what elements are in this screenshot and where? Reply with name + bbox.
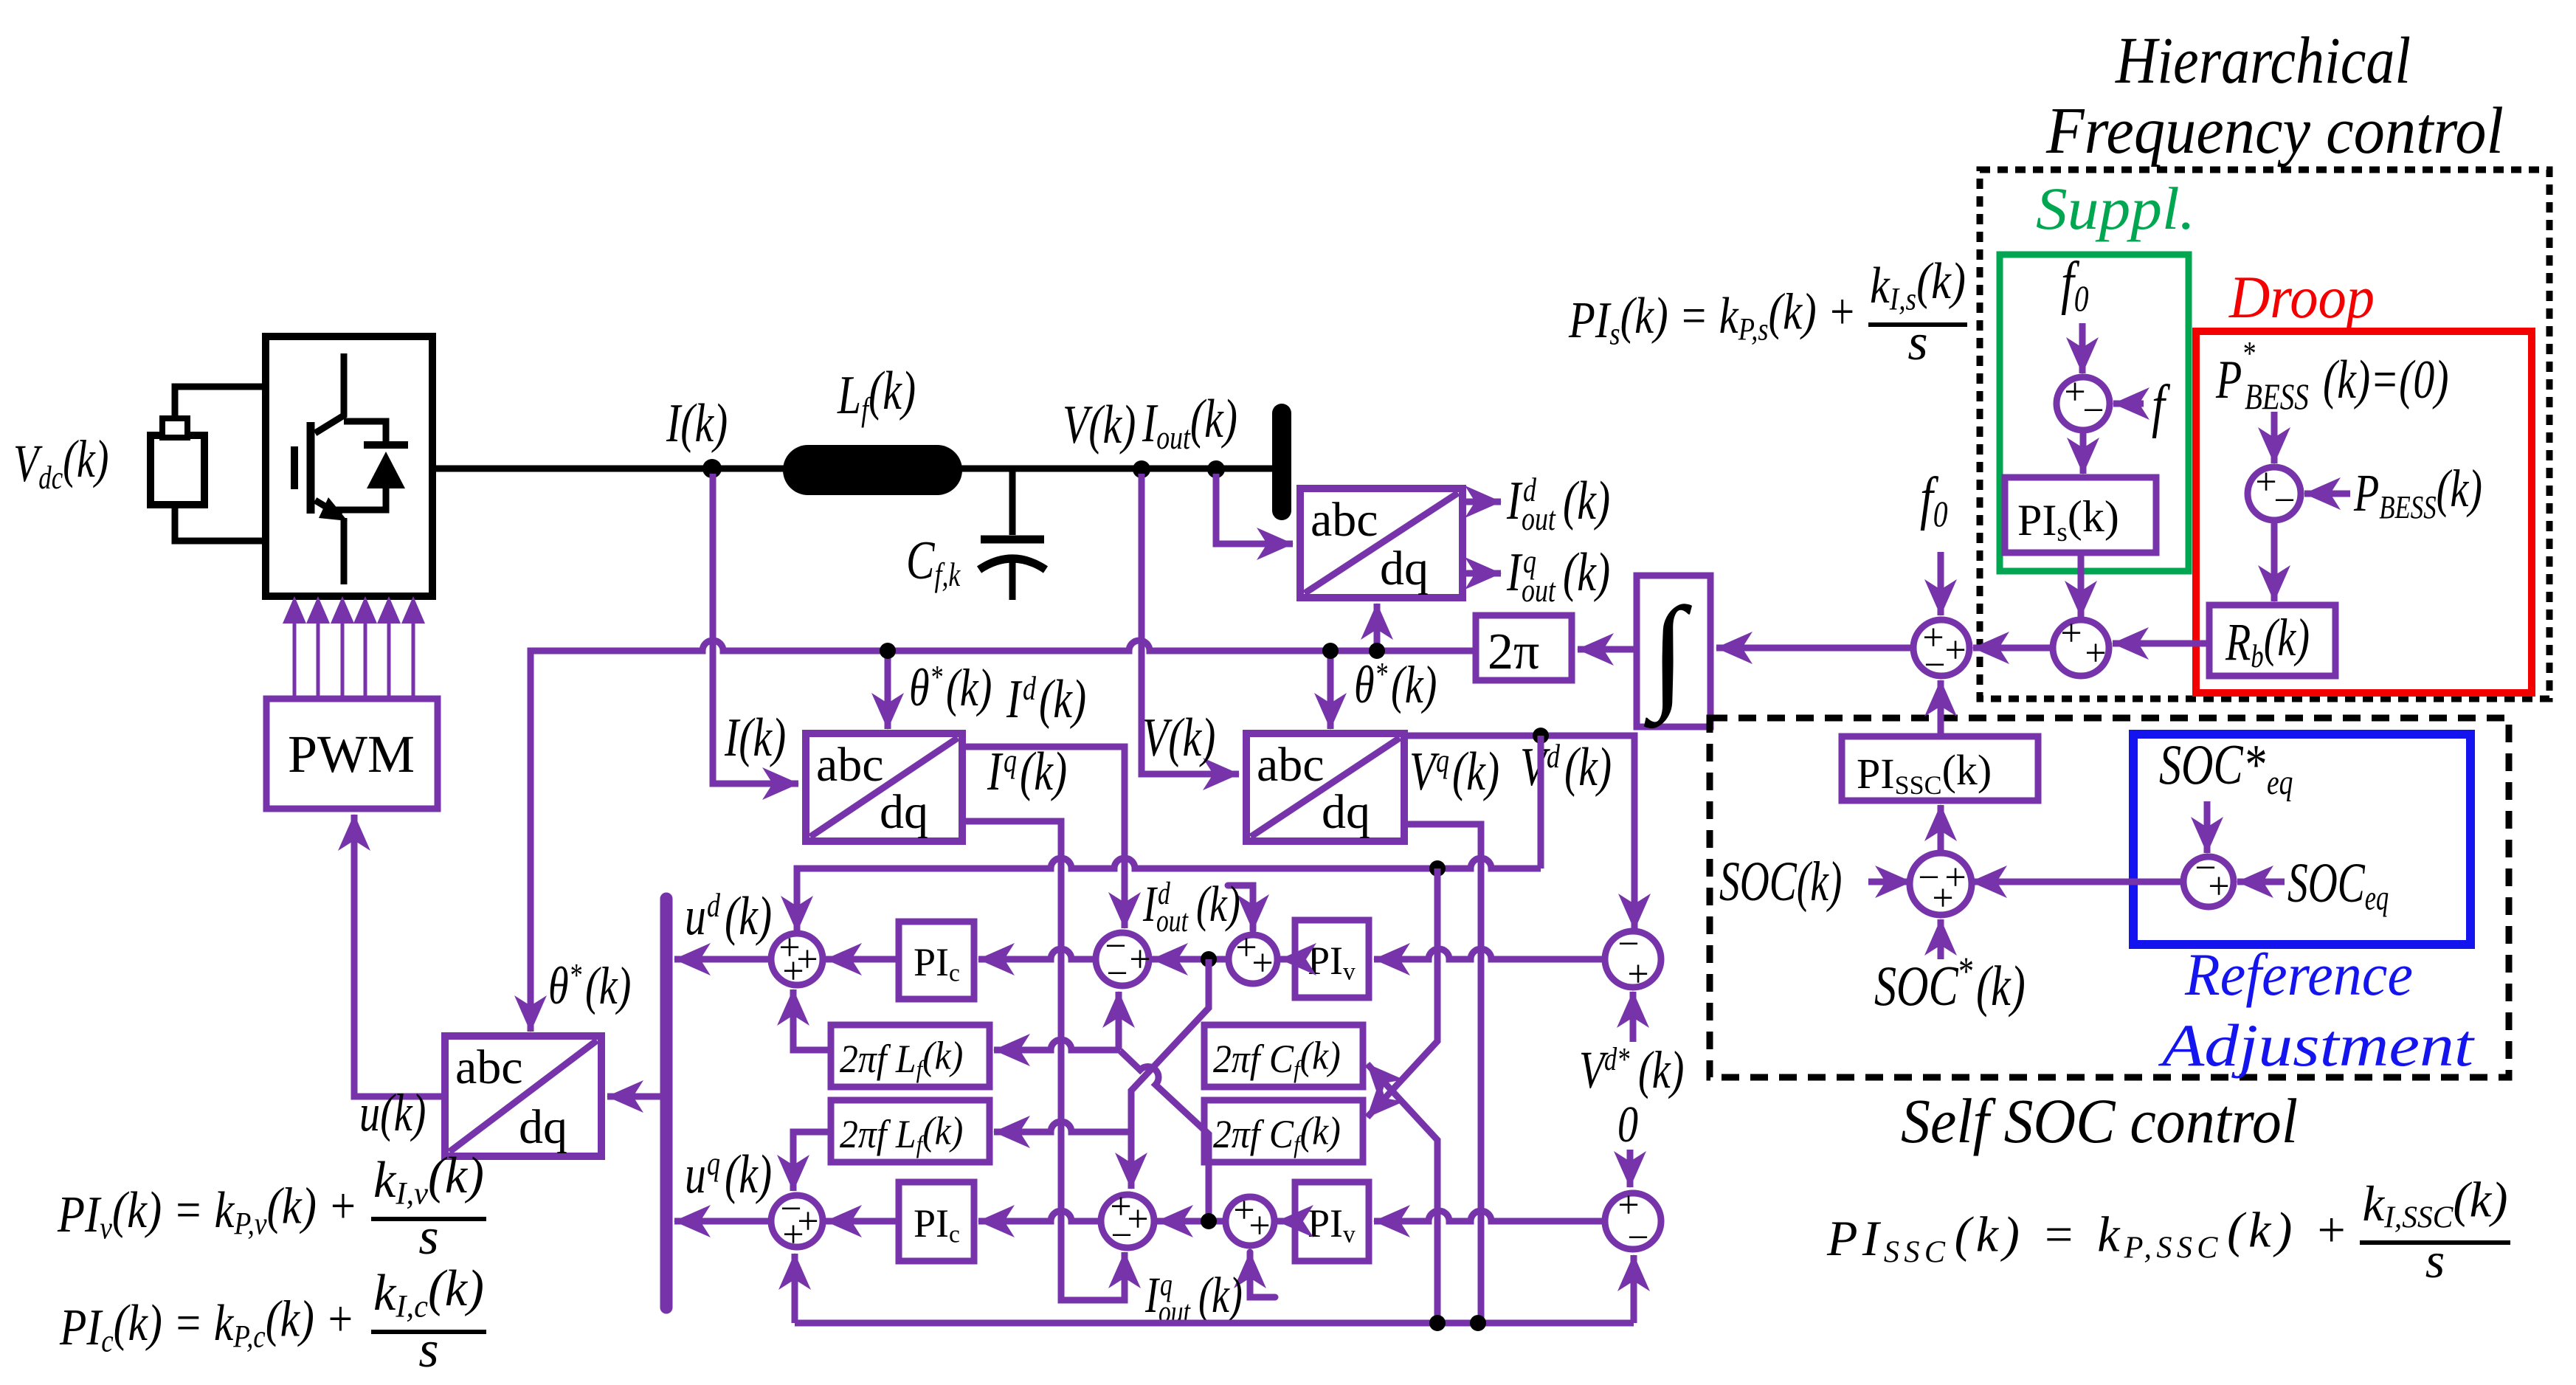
- junction I*d: [1201, 951, 1217, 967]
- sum d-axis current: [1096, 925, 1151, 995]
- svg-text:I: I: [987, 742, 1004, 801]
- svg-text:q: q: [1160, 1268, 1173, 1302]
- wire zero down: [1627, 1150, 1634, 1187]
- label V^d(k): [1520, 737, 1612, 798]
- sum freq 1: [1913, 617, 1969, 686]
- junction theta* Iout: [1369, 643, 1385, 659]
- svg-text:u: u: [685, 886, 706, 946]
- wire d current sum to PIc: [978, 949, 1096, 959]
- wire I(k) meas drop: [713, 474, 798, 784]
- busbar at PCC: [1272, 413, 1291, 511]
- svg-text:abc: abc: [1257, 738, 1325, 792]
- svg-text:−: −: [2273, 480, 2295, 522]
- svg-text:I: I: [1506, 542, 1523, 602]
- label I^d(k): [1006, 669, 1086, 730]
- svg-text:*: *: [930, 659, 942, 695]
- label theta*(k) near V block: [1354, 654, 1437, 714]
- svg-text:Suppl.: Suppl.: [2036, 175, 2195, 242]
- svg-text:Frequency control: Frequency control: [2045, 94, 2504, 167]
- svg-text:+: +: [2060, 612, 2082, 654]
- wire Iout d output: [1463, 499, 1501, 505]
- label V^q(k): [1409, 742, 1499, 802]
- wire PIv q to ff sum q: [1277, 1218, 1295, 1225]
- sum freq 2: [2053, 612, 2109, 676]
- svg-text:V(k): V(k): [1142, 708, 1215, 767]
- node Iout(k): [1207, 460, 1225, 478]
- svg-text:−: −: [2082, 390, 2104, 432]
- sum q-axis current: [1101, 1186, 1154, 1257]
- svg-text:q: q: [707, 1144, 720, 1182]
- svg-text:V(k): V(k): [1063, 395, 1136, 455]
- svg-text:kI,s​(k): kI,s​(k): [1870, 253, 1966, 317]
- label I^q(k): [987, 742, 1067, 802]
- svg-text:d: d: [1547, 737, 1560, 775]
- svg-text:I(k): I(k): [724, 708, 786, 767]
- svg-text:(k): (k): [1976, 954, 2026, 1018]
- wire ff sum q to q current sum: [1157, 1218, 1226, 1225]
- junction V^d branch: [1533, 728, 1549, 744]
- svg-text:(k): (k): [1020, 742, 1067, 801]
- svg-text:I(k): I(k): [666, 393, 728, 453]
- sum V^d reference: [1605, 923, 1661, 995]
- svg-text:abc: abc: [816, 738, 884, 792]
- PI_c block q-axis: [899, 1182, 974, 1261]
- wire V^q output down: [1404, 824, 1481, 1323]
- label SOC*eq: [2159, 733, 2293, 802]
- 2pifCf block row2: [1204, 1100, 1363, 1162]
- svg-text:(k)=(0): (k)=(0): [2323, 350, 2448, 410]
- svg-text:dq: dq: [1322, 785, 1370, 839]
- wire I*q to d current sum: [1116, 992, 1122, 1050]
- PI_v block q-axis: [1295, 1182, 1369, 1261]
- abc/dq block Iout: [1300, 488, 1463, 598]
- 2pifLf block row2: [831, 1100, 990, 1162]
- PWM block: [266, 699, 438, 809]
- svg-text:dq: dq: [519, 1100, 567, 1154]
- svg-text:abc: abc: [1311, 493, 1378, 547]
- svg-text:+: +: [1627, 953, 1648, 995]
- PI_SSC block: [1842, 736, 2038, 801]
- wire PIc d to sum u^d: [826, 956, 899, 963]
- wire hook Iout^d: [1228, 885, 1253, 930]
- inverter block: [266, 336, 432, 596]
- wire Rb to freq sum2: [2113, 640, 2209, 647]
- R_b block: [2209, 605, 2335, 676]
- sum V^q reference: [1605, 1184, 1661, 1259]
- capacitor Cf,k: [979, 472, 1046, 600]
- node I(k): [702, 459, 722, 478]
- wire dc source bottom to inverter: [175, 505, 266, 541]
- wire PISSC to freq sum1: [1938, 680, 1944, 736]
- wire sum eq to SOC sum: [1971, 879, 2183, 885]
- wire Iout(k) meas drop: [1216, 474, 1293, 544]
- svg-text:u: u: [685, 1144, 706, 1204]
- label Iout^q(k): [1506, 542, 1610, 609]
- svg-text:*: *: [1375, 656, 1387, 692]
- svg-text:u(k): u(k): [359, 1082, 426, 1142]
- svg-text:+: +: [1249, 1205, 1270, 1247]
- wire PBESS to droop sum: [2304, 491, 2350, 497]
- sum u^d: [771, 927, 823, 992]
- wire I^q measurement: [962, 821, 1125, 1300]
- svg-text:(k): (k): [725, 1144, 772, 1204]
- wire SOC* to sum: [1938, 919, 1944, 959]
- svg-text:Rb​(k): Rb​(k): [2225, 607, 2310, 674]
- svg-text:(k): (k): [1196, 877, 1240, 933]
- wire I*d cross branch: [1131, 959, 1209, 1189]
- svg-text:V: V: [1409, 742, 1440, 801]
- wire f0 to sum f: [2079, 323, 2086, 373]
- label P*BESS(k)=(0): [2215, 334, 2448, 417]
- label Iout^d(k) small: [1142, 877, 1240, 939]
- svg-text:+: +: [1129, 939, 1150, 981]
- svg-text:d*: d*: [1604, 1041, 1630, 1077]
- green frame Suppl.: [2000, 255, 2189, 571]
- svg-text:V: V: [1520, 737, 1550, 797]
- svg-text:eq: eq: [2267, 764, 2293, 802]
- wire theta* to V abc/dq: [1327, 651, 1334, 729]
- wire f0 main to freq sum1: [1938, 552, 1944, 615]
- label Iout^d(k): [1506, 471, 1610, 537]
- red frame Droop: [2196, 331, 2532, 693]
- wire V^d branch down: [1538, 736, 1544, 868]
- svg-text:I: I: [1006, 669, 1023, 729]
- wire V^d feedforward line: [797, 858, 1541, 932]
- svg-text:(k): (k): [946, 657, 992, 717]
- svg-text:−: −: [1111, 1215, 1132, 1257]
- junction theta* V: [1322, 643, 1339, 659]
- integrator block: [1637, 576, 1710, 727]
- svg-text:q: q: [1436, 742, 1449, 779]
- svg-text:∫: ∫: [1644, 582, 1693, 729]
- svg-text:2πf Cf​(k): 2πf Cf​(k): [1213, 1110, 1341, 1158]
- wire V^d* up: [1630, 992, 1637, 1042]
- svg-text:2πf Lf​(k): 2πf Lf​(k): [840, 1110, 963, 1158]
- svg-text:BESS: BESS: [2245, 376, 2309, 417]
- 2pifCf block row1: [1204, 1025, 1363, 1087]
- svg-text:−: −: [1106, 953, 1128, 995]
- svg-text:PWM: PWM: [288, 725, 415, 784]
- wire I*d to Lf row2: [994, 1122, 1131, 1132]
- wire SOC sum to PISSC: [1938, 805, 1944, 852]
- wire V^d output: [1404, 736, 1634, 930]
- sum Iout^q feedforward: [1226, 1189, 1274, 1247]
- svg-text:d: d: [1158, 877, 1170, 911]
- equation PI_c: [59, 1260, 484, 1378]
- wire PIs to freq sum2: [2078, 553, 2085, 617]
- 2pifLf block row1: [831, 1025, 990, 1087]
- svg-text:(k): (k): [1563, 542, 1610, 602]
- svg-text:P: P: [2215, 350, 2242, 410]
- label u^q(k): [685, 1144, 772, 1205]
- label Iout^q(k) small: [1144, 1268, 1243, 1330]
- svg-text:+: +: [782, 1214, 804, 1256]
- svg-text:(k): (k): [1039, 669, 1086, 729]
- svg-text:d: d: [707, 886, 720, 924]
- svg-text:+: +: [2208, 866, 2229, 908]
- svg-text:(k): (k): [585, 956, 631, 1015]
- svg-text:Lf​(k): Lf​(k): [837, 361, 916, 428]
- label u^d(k): [685, 886, 772, 947]
- wire u^q to bus: [674, 1218, 771, 1225]
- wire feedback up to sum u^q: [792, 1254, 798, 1323]
- sum SOC: [1910, 853, 1972, 919]
- svg-text:+: +: [1251, 942, 1273, 984]
- svg-text:(k): (k): [1638, 1040, 1684, 1099]
- svg-text:q: q: [1523, 542, 1536, 580]
- wire PIc q to sum u^q: [826, 1218, 899, 1225]
- wire SOC*eq to sum eq: [2204, 801, 2211, 853]
- sum f0 minus f: [2057, 371, 2110, 432]
- junction I*q: [1201, 1213, 1217, 1229]
- wire V^d to 2pifCf row2: [1367, 868, 1437, 1117]
- svg-text:0: 0: [1617, 1096, 1638, 1153]
- 2pi gain block: [1476, 615, 1572, 680]
- PI_c block d-axis: [899, 922, 974, 999]
- wire f to sum f: [2113, 401, 2144, 407]
- wire SOC(k) to sum: [1868, 879, 1911, 885]
- svg-text:d: d: [1023, 669, 1036, 707]
- wire hook Iout^q: [1250, 1252, 1275, 1297]
- junction feedback V^d vert: [1429, 1315, 1446, 1331]
- wire u bus to abc/dq u: [607, 1094, 661, 1100]
- svg-text:*: *: [1957, 950, 1973, 993]
- label SOC*(k): [1874, 950, 2026, 1018]
- PWM gate signal arrows: [283, 596, 425, 699]
- wire integrator to 2pi: [1578, 646, 1637, 653]
- svg-text:2πf Lf​(k): 2πf Lf​(k): [840, 1035, 963, 1083]
- svg-text:d: d: [1523, 471, 1536, 508]
- label theta*(k) near I block: [909, 657, 992, 717]
- svg-text:+: +: [1932, 877, 1953, 919]
- wire SOCeq to sum eq: [2237, 879, 2285, 885]
- wire theta* to Iout abc/dq: [1374, 604, 1381, 651]
- svg-text:θ: θ: [1354, 654, 1375, 714]
- svg-text:Reference: Reference: [2184, 941, 2413, 1008]
- wire ff sum to d current sum: [1152, 956, 1229, 963]
- wire I^d measurement: [962, 747, 1125, 928]
- equation PI_v: [57, 1147, 484, 1265]
- u vector bus bar: [660, 899, 673, 1308]
- abc/dq block I: [806, 733, 962, 841]
- junction V^d to Cf row: [1429, 860, 1446, 877]
- node V(k): [1133, 460, 1150, 478]
- svg-text:PIs​(k): PIs​(k): [2017, 492, 2119, 548]
- wire V^q to 2pifCf row1: [1367, 1064, 1437, 1323]
- wire u(k) to PWM: [354, 815, 445, 1096]
- svg-text:(k): (k): [1391, 654, 1437, 714]
- sum SOC eq: [2183, 847, 2234, 908]
- svg-text:θ: θ: [548, 956, 569, 1015]
- svg-text:abc: abc: [455, 1040, 523, 1094]
- wire droop sum to Rb: [2271, 520, 2278, 601]
- junction feedback V^q vert: [1470, 1315, 1486, 1331]
- dashed frame Self SOC control: [1710, 718, 2509, 1077]
- wire q current sum to PIc: [978, 1211, 1101, 1221]
- wire Vd sum to PIv d: [1374, 949, 1605, 959]
- wire I*q cross branch: [1120, 1051, 1209, 1221]
- abc/dq block u: [445, 1036, 601, 1156]
- equation PI_s: [1568, 253, 1966, 371]
- wire Iout q output: [1463, 570, 1501, 577]
- svg-text:I: I: [1506, 471, 1523, 531]
- sum droop power: [2248, 461, 2301, 522]
- svg-text:−: −: [1627, 1217, 1648, 1259]
- svg-text:(k): (k): [1198, 1268, 1243, 1324]
- abc/dq block V: [1246, 733, 1404, 841]
- svg-text:2πf Cf​(k): 2πf Cf​(k): [1213, 1035, 1341, 1083]
- wire V^q feedback line: [795, 1320, 1634, 1327]
- svg-text:(k): (k): [1452, 742, 1499, 801]
- svg-text:dq: dq: [880, 785, 928, 839]
- svg-text:SOC: SOC: [1874, 954, 1958, 1018]
- label V^d*(k): [1579, 1040, 1684, 1099]
- wire u^d to bus: [674, 956, 771, 963]
- wire freq sum2 to freq sum1: [1973, 645, 2053, 652]
- svg-text:(k): (k): [725, 886, 772, 946]
- wire I*q to Lf row1: [994, 1040, 1120, 1050]
- svg-text:θ: θ: [909, 657, 930, 716]
- svg-text:*: *: [569, 957, 581, 993]
- wire Vq sum to PIv q: [1374, 1211, 1605, 1221]
- wire V(k) meas drop: [1142, 474, 1239, 774]
- svg-text:+: +: [2085, 632, 2106, 674]
- inductor Lf(k): [783, 445, 962, 495]
- svg-text:SOC(k): SOC(k): [1719, 852, 1842, 913]
- wire sum f to PIs: [2080, 430, 2087, 474]
- svg-text:kI,v​(k): kI,v​(k): [373, 1147, 484, 1211]
- wire feedback up to Vq sum: [1631, 1255, 1637, 1323]
- svg-text:2π: 2π: [1488, 624, 1539, 680]
- svg-text:Hierarchical: Hierarchical: [2115, 24, 2411, 97]
- svg-text:Adjustment: Adjustment: [2158, 1012, 2475, 1079]
- svg-text:+: +: [1944, 629, 1966, 671]
- PI_s block: [2005, 477, 2156, 553]
- label theta*(k) near u block: [548, 956, 631, 1015]
- wire freq sum1 to integrator: [1716, 645, 1913, 652]
- svg-text:(k): (k): [1564, 737, 1612, 797]
- svg-text:kI,c​(k): kI,c​(k): [373, 1260, 484, 1324]
- wire PIv d to ff sum: [1280, 956, 1295, 963]
- blue frame Reference Adjustment: [2133, 734, 2470, 944]
- dashed frame Hierarchical Frequency control: [1980, 170, 2549, 699]
- wire P*BESS to droop sum: [2271, 412, 2278, 463]
- svg-text:(k): (k): [1563, 471, 1610, 531]
- wire dc source top to inverter: [175, 387, 266, 418]
- sum Iout^d feedforward: [1229, 927, 1277, 984]
- svg-text:Self SOC control: Self SOC control: [1901, 1085, 2298, 1156]
- svg-text:+: +: [782, 950, 804, 992]
- svg-text:Droop: Droop: [2228, 263, 2375, 331]
- sum u^q: [771, 1188, 823, 1256]
- wire Lf row2 out to sum u^q: [793, 1132, 831, 1191]
- svg-text:SOC*: SOC*: [2159, 733, 2265, 796]
- PI_v block d-axis: [1295, 920, 1369, 998]
- wire theta* line from 2pi: [531, 640, 1476, 1032]
- wire ac bus: [432, 466, 1282, 472]
- svg-text:dq: dq: [1380, 542, 1429, 595]
- dc source V_dc: [151, 418, 204, 505]
- wire theta* to I abc/dq: [885, 651, 891, 729]
- junction theta* I: [880, 643, 896, 659]
- svg-text:*: *: [2242, 334, 2255, 372]
- svg-text:−: −: [1924, 644, 1945, 686]
- IGBT Q1 inside inverter: [294, 353, 408, 584]
- equation PI_SSC: [1826, 1171, 2508, 1288]
- wire Lf row1 out to sum u^d: [793, 989, 831, 1050]
